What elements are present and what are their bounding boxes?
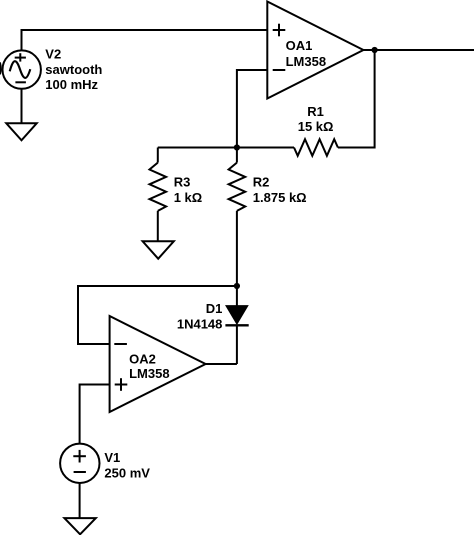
svg-text:LM358: LM358: [286, 54, 326, 69]
diode D1: [225, 286, 248, 364]
ground (under V2): [6, 89, 36, 140]
ground (under V1): [64, 483, 95, 534]
svg-text:LM358: LM358: [129, 366, 169, 381]
voltage source V2: [3, 50, 41, 88]
svg-text:R1: R1: [307, 104, 324, 119]
wire output down to R1 right: [338, 50, 375, 148]
svg-text:V1: V1: [104, 450, 120, 465]
resistor R2: [229, 148, 246, 287]
label OA1: [286, 38, 326, 69]
wire OA1 inverting input to feedback node: [237, 70, 267, 148]
svg-text:15 kΩ: 15 kΩ: [298, 119, 334, 134]
label V1: [104, 450, 150, 481]
svg-text:V2: V2: [45, 47, 61, 62]
node output junction: [372, 47, 378, 53]
label R3: [174, 175, 203, 205]
resistor R1: [294, 139, 338, 156]
node feedback junction: [234, 144, 240, 150]
wire R2 bottom node to OA2 inverting input: [78, 286, 237, 344]
label V2: [45, 47, 102, 93]
label OA2: [129, 351, 169, 381]
wire V2 top to OA1 + input: [22, 30, 268, 50]
op-amp OA1: [267, 2, 363, 99]
node R2 bottom junction: [234, 283, 240, 289]
svg-text:sawtooth: sawtooth: [45, 62, 102, 77]
svg-text:R2: R2: [253, 175, 270, 190]
svg-text:250 mV: 250 mV: [104, 466, 150, 481]
op-amp OA2: [110, 316, 206, 412]
svg-text:R3: R3: [174, 175, 191, 190]
label R2: [253, 175, 307, 205]
resistor R3: [150, 148, 167, 242]
svg-text:D1: D1: [206, 301, 223, 316]
svg-text:1 kΩ: 1 kΩ: [174, 190, 203, 205]
svg-text:OA2: OA2: [129, 351, 156, 366]
label D1: [177, 301, 223, 332]
label R1: [298, 104, 334, 134]
svg-text:1.875 kΩ: 1.875 kΩ: [253, 190, 307, 205]
wire feedback node to R3 top: [158, 147, 294, 149]
wire D1 bottom to OA2 output: [206, 363, 237, 365]
svg-text:1N4148: 1N4148: [177, 317, 223, 332]
ground (under R3): [143, 241, 174, 258]
wire OA2 non-inverting input to V1: [80, 385, 110, 444]
voltage source V1: [60, 444, 99, 483]
svg-text:OA1: OA1: [286, 38, 313, 53]
wire OA1 output to right edge: [363, 49, 474, 51]
svg-text:100 mHz: 100 mHz: [45, 77, 98, 92]
